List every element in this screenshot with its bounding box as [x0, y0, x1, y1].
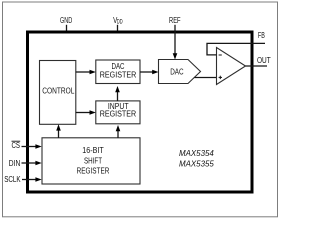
svg-text:DAC: DAC: [170, 67, 184, 76]
svg-text:SCLK: SCLK: [4, 175, 21, 184]
DAC converter symbol: [159, 60, 201, 84]
wire op-amp output OUT: [246, 65, 268, 67]
block CONTROL: [40, 61, 76, 125]
wire VDD tick: [117, 25, 119, 31]
wire DAC REGISTER to DAC: [140, 70, 159, 75]
device boundary box: [28, 32, 253, 192]
svg-text:CONTROL: CONTROL: [42, 87, 75, 96]
svg-text:CS: CS: [12, 141, 21, 150]
block 16-BIT SHIFT REGISTER: [42, 138, 140, 184]
svg-text:GND: GND: [60, 16, 72, 25]
wire DAC to op-amp non-inverting input: [195, 77, 217, 79]
wire SHIFT REGISTER to CONTROL: [56, 124, 61, 138]
svg-text:MAX5355: MAX5355: [179, 158, 214, 168]
svg-text:MAX5354: MAX5354: [179, 148, 214, 158]
svg-text:16-BIT: 16-BIT: [82, 146, 103, 155]
block INPUT REGISTER: [96, 101, 140, 124]
block DAC REGISTER: [96, 60, 140, 84]
pin label CS with overline: [12, 141, 21, 150]
wire SCLK arrow: [22, 177, 42, 182]
svg-text:DD: DD: [117, 18, 123, 25]
svg-text:FB: FB: [258, 31, 265, 40]
wire CS arrow: [22, 144, 42, 149]
wire feedback FB to inverting input: [207, 43, 265, 55]
wire REF arrow into DAC: [173, 25, 178, 60]
svg-text:OUT: OUT: [257, 56, 271, 65]
svg-text:SHIFT: SHIFT: [84, 156, 102, 165]
wire SHIFT REGISTER to INPUT REGISTER: [116, 125, 121, 138]
wire GND tick: [66, 25, 68, 31]
op-amp U1: [217, 48, 246, 85]
wire CONTROL to DAC REGISTER: [76, 70, 96, 75]
pin label VDD: [113, 16, 123, 25]
svg-text:REGISTER: REGISTER: [100, 70, 137, 79]
svg-text:REGISTER: REGISTER: [100, 109, 137, 118]
outer thin frame: [3, 2, 278, 217]
svg-text:REF: REF: [169, 16, 181, 25]
svg-text:REGISTER: REGISTER: [77, 167, 110, 176]
svg-text:DIN: DIN: [9, 159, 21, 168]
wire CONTROL to INPUT REGISTER: [76, 110, 96, 115]
wire INPUT REGISTER to DAC REGISTER: [115, 86, 120, 101]
wire DIN arrow: [22, 161, 42, 166]
